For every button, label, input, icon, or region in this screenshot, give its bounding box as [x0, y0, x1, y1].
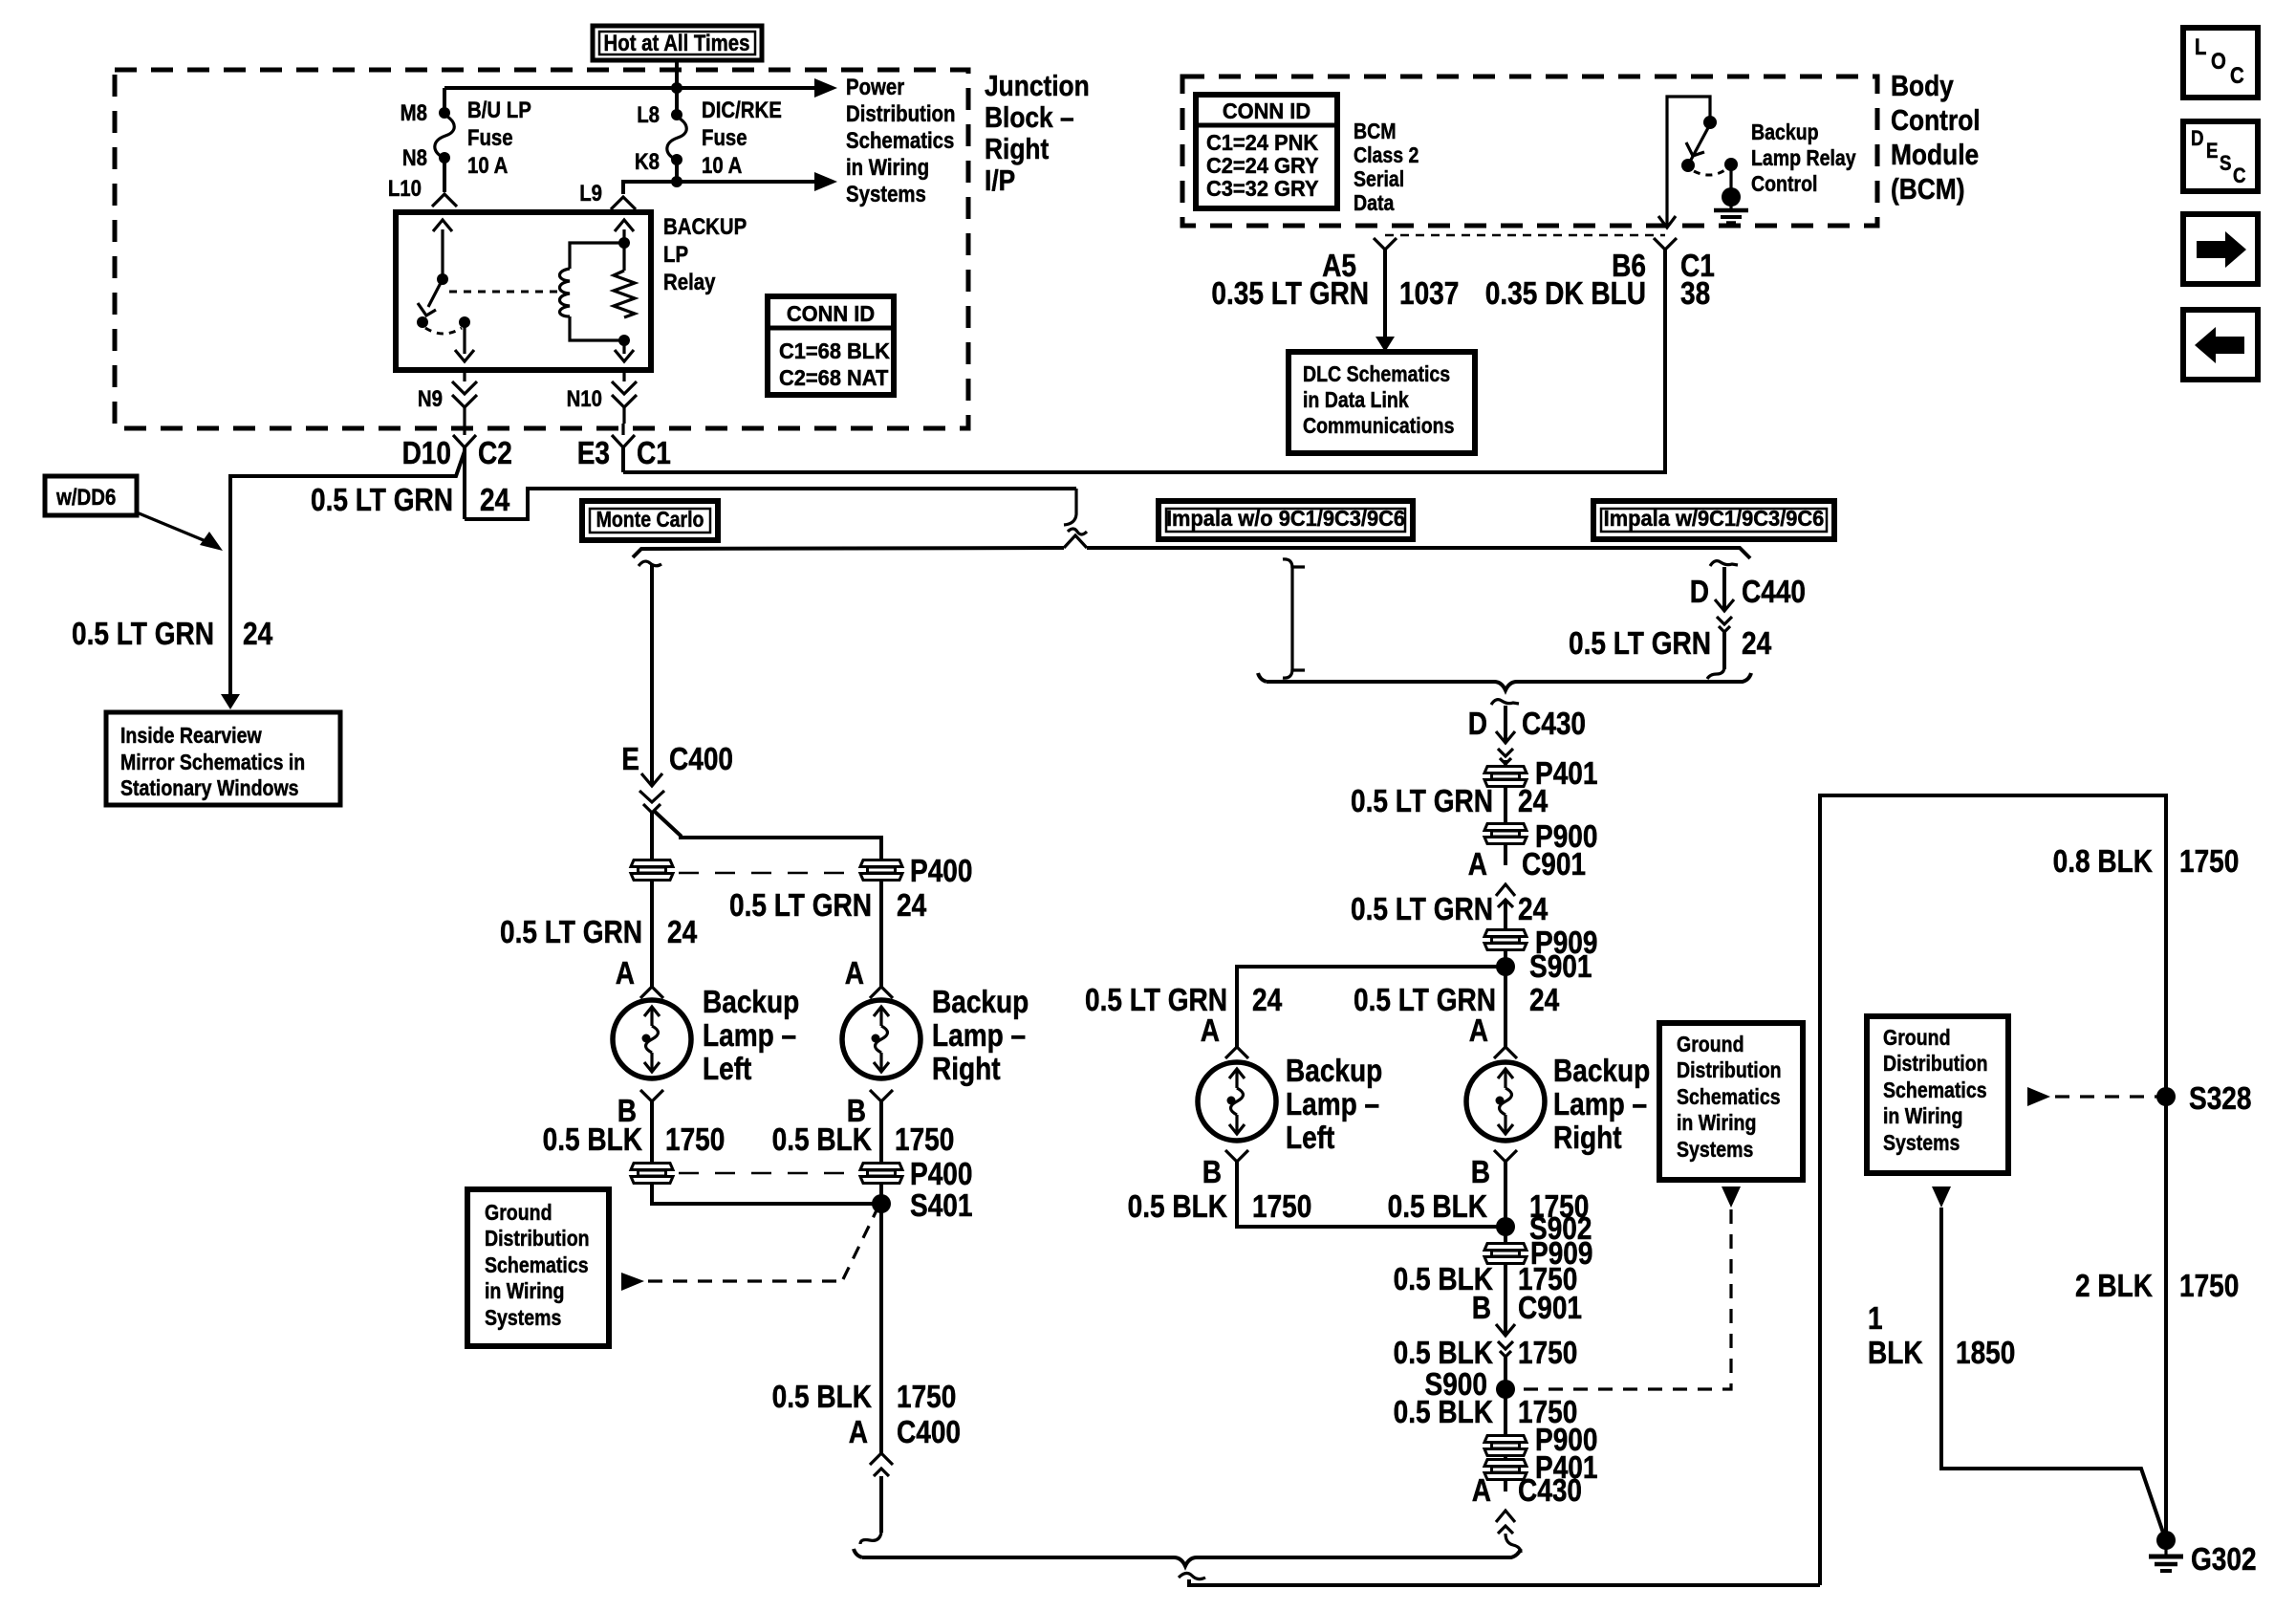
wire: S401 down to C400: [879, 1204, 883, 1453]
relay coil (inductor): [560, 269, 571, 316]
svg-text:Hot at All Times: Hot at All Times: [604, 30, 750, 55]
splice S401: [872, 1194, 891, 1213]
svg-text:Communications: Communications: [1303, 414, 1454, 439]
pin B Impala right: [1494, 1150, 1517, 1162]
svg-text:24: 24: [1518, 892, 1548, 927]
pin B right lamp: [870, 1090, 893, 1101]
svg-text:E3: E3: [577, 436, 610, 471]
svg-text:Left: Left: [1286, 1121, 1334, 1156]
svg-text:1750: 1750: [1252, 1189, 1311, 1225]
svg-text:D: D: [1690, 575, 1709, 610]
lamp Backup Lamp Right (Monte Carlo): [842, 1000, 921, 1078]
node L8: [671, 109, 682, 120]
svg-text:BCM: BCM: [1354, 120, 1396, 144]
svg-text:Backup: Backup: [1751, 120, 1819, 145]
underbrace gather bottom: [854, 1549, 1521, 1566]
wire: S901 down to right Impala lamp: [1504, 967, 1507, 1047]
grommet P400 right upper: [860, 860, 902, 881]
pin B Impala left: [1225, 1150, 1248, 1162]
navigation box arrow right: [2183, 214, 2258, 284]
svg-text:Systems: Systems: [485, 1306, 561, 1331]
flag box Ground Distribution (Impala): [1659, 1023, 1803, 1180]
flag box Impala w/o 9C1/9C3/9C6: [1159, 501, 1413, 539]
svg-text:in Wiring: in Wiring: [846, 154, 929, 180]
wire: left B to splice S401: [652, 1183, 873, 1204]
wire: hot feed drop: [675, 60, 679, 88]
node M8: [439, 107, 450, 119]
svg-text:C2=68 NAT: C2=68 NAT: [779, 365, 889, 390]
dashed reference arrow Impala to S900: [1722, 1186, 1741, 1208]
splice S901: [1504, 949, 1507, 967]
svg-text:in Wiring: in Wiring: [1883, 1104, 1962, 1129]
svg-text:A: A: [1201, 1013, 1220, 1049]
wire: left fuse feed elbow: [443, 88, 446, 114]
wire: Impala left B to S902: [1237, 1162, 1497, 1227]
svg-text:Fuse: Fuse: [467, 124, 513, 150]
svg-text:Schematics: Schematics: [846, 127, 954, 153]
connector D/C440: [1710, 561, 1738, 566]
svg-text:w/DD6: w/DD6: [55, 484, 116, 510]
svg-text:Schematics: Schematics: [1677, 1085, 1781, 1110]
wire: K8 down to branch node: [675, 160, 679, 182]
svg-text:C: C: [2230, 62, 2244, 88]
flag box Ground Distribution (right): [1867, 1016, 2008, 1173]
svg-text:C400: C400: [669, 742, 733, 777]
wire: ground loop rectangle: [1820, 795, 2166, 1585]
BCM connector face dashed line: [1385, 234, 1665, 236]
svg-text:Systems: Systems: [1677, 1138, 1753, 1163]
svg-text:Right: Right: [1553, 1121, 1622, 1156]
svg-text:B: B: [1472, 1291, 1491, 1326]
svg-text:10 A: 10 A: [702, 152, 742, 178]
svg-text:24: 24: [480, 483, 509, 518]
relay switch blade: [428, 279, 443, 307]
svg-text:Serial: Serial: [1354, 167, 1404, 192]
svg-text:Mirror Schematics in: Mirror Schematics in: [120, 751, 305, 775]
svg-text:0.5 LT GRN: 0.5 LT GRN: [311, 483, 453, 518]
svg-text:C2: C2: [478, 436, 512, 471]
wire: Monte Carlo drop: [650, 564, 654, 786]
break: below bottom cusp: [1179, 1573, 1205, 1578]
svg-text:0.5 LT GRN: 0.5 LT GRN: [1351, 892, 1493, 927]
break cusp on lower bus: [1064, 535, 1087, 548]
svg-text:Lamp –: Lamp –: [932, 1018, 1026, 1054]
svg-text:1: 1: [1868, 1301, 1883, 1337]
svg-text:S401: S401: [910, 1188, 972, 1224]
svg-text:C3=32 GRY: C3=32 GRY: [1206, 176, 1319, 201]
flag box w/DD6: [45, 476, 137, 515]
junction CONN ID table: [768, 296, 894, 395]
splice S900: [1496, 1380, 1515, 1399]
node: coil top: [618, 237, 630, 249]
svg-text:K8: K8: [635, 148, 660, 174]
svg-text:Impala w/o 9C1/9C3/9C6: Impala w/o 9C1/9C3/9C6: [1166, 506, 1405, 531]
option bracket Impala w/o branch: [1290, 566, 1293, 671]
svg-text:Lamp –: Lamp –: [1286, 1087, 1379, 1122]
relay pin arrow up (right): [622, 229, 625, 271]
dashed grommet link P400 upper: [679, 872, 855, 875]
grommet P900 lower: [1484, 1436, 1527, 1456]
svg-text:A: A: [1469, 1013, 1488, 1049]
svg-text:BLK: BLK: [1868, 1336, 1923, 1371]
svg-text:Lamp Relay: Lamp Relay: [1751, 146, 1856, 171]
svg-text:D10: D10: [402, 436, 451, 471]
svg-text:Backup: Backup: [932, 985, 1029, 1020]
break: Monte Carlo ground end: [860, 1533, 881, 1544]
svg-text:Distribution: Distribution: [846, 100, 955, 126]
svg-text:DLC Schematics: DLC Schematics: [1303, 362, 1450, 387]
svg-text:1750: 1750: [665, 1122, 725, 1158]
svg-text:I/P: I/P: [985, 164, 1015, 197]
wire: C400 to left lamp branch: [650, 813, 654, 861]
node: K8 branch: [671, 176, 682, 187]
BCM switch dashed travel arc: [1694, 169, 1726, 175]
node: coil bottom: [618, 335, 630, 346]
splice S902: [1496, 1217, 1515, 1236]
svg-text:LP: LP: [663, 241, 688, 267]
svg-text:Junction: Junction: [985, 70, 1090, 102]
svg-text:Module: Module: [1891, 139, 1979, 171]
svg-text:C400: C400: [897, 1415, 961, 1450]
svg-text:in Wiring: in Wiring: [1677, 1111, 1756, 1136]
svg-text:2 BLK: 2 BLK: [2075, 1269, 2153, 1304]
relay pin arrow up (left): [441, 229, 444, 279]
fuse DIC/RKE 10A: [667, 117, 686, 160]
grommet P909 upper: [1484, 930, 1527, 950]
flag box Hot at All Times: [593, 26, 762, 60]
svg-text:24: 24: [243, 617, 272, 652]
svg-text:B/U LP: B/U LP: [467, 97, 531, 122]
svg-text:Inside Rearview: Inside Rearview: [120, 724, 262, 749]
svg-text:(BCM): (BCM): [1891, 173, 1965, 206]
svg-text:Impala w/9C1/9C3/9C6: Impala w/9C1/9C3/9C6: [1604, 506, 1825, 531]
break: C430 lower to underbrace: [1505, 1534, 1521, 1553]
svg-text:B: B: [1202, 1155, 1222, 1190]
underbrace gather to C430: [1258, 673, 1751, 690]
svg-text:0.5 LT GRN: 0.5 LT GRN: [1351, 784, 1493, 819]
svg-text:1750: 1750: [2179, 1269, 2239, 1304]
BCM relay driver wire: [1667, 97, 1710, 224]
connector E3/C1: [621, 424, 624, 435]
svg-text:1750: 1750: [1518, 1336, 1577, 1371]
svg-text:CONN ID: CONN ID: [1223, 98, 1310, 123]
svg-text:0.5 LT GRN: 0.5 LT GRN: [1569, 626, 1711, 662]
BCM dashed outline: [1182, 76, 1877, 226]
pin B left lamp: [640, 1090, 663, 1101]
fuse B/U LP 10A: [435, 115, 454, 158]
wire: P909 to C901: [1504, 1263, 1507, 1336]
svg-text:Distribution: Distribution: [1677, 1058, 1782, 1083]
svg-text:Block –: Block –: [985, 101, 1074, 134]
svg-text:24: 24: [897, 888, 926, 924]
wire: C440 down: [1722, 632, 1726, 669]
grommet P400 left upper: [631, 860, 673, 881]
svg-text:D: D: [2191, 128, 2204, 151]
connector N10 double chevron: [622, 370, 625, 381]
svg-text:N8: N8: [402, 144, 427, 170]
svg-text:Distribution: Distribution: [485, 1227, 590, 1252]
svg-text:38: 38: [1680, 276, 1710, 312]
svg-text:Backup: Backup: [703, 985, 799, 1020]
wire: left P400 to lamp: [650, 880, 654, 987]
wire: D10 branch to w/DD6 net: [230, 451, 465, 698]
break: upper bus end: [1064, 489, 1076, 525]
wire: bottom bus to right loop: [1189, 1579, 1820, 1585]
svg-text:Right: Right: [932, 1052, 1001, 1087]
arrow from w/DD6 to wire: [137, 512, 210, 543]
wire: right B to splice S401: [879, 1183, 883, 1204]
svg-text:G302: G302: [2191, 1542, 2257, 1578]
svg-text:Ground: Ground: [1883, 1026, 1951, 1051]
svg-text:Control: Control: [1751, 172, 1817, 197]
wire: hot bus to Power Distribution arrow: [444, 86, 818, 90]
navigation box LOC: [2183, 28, 2258, 98]
break: Monte Carlo drop: [639, 561, 661, 566]
svg-text:in Wiring: in Wiring: [485, 1279, 564, 1304]
BCM switch blade: [1690, 124, 1710, 162]
svg-text:24: 24: [1529, 983, 1559, 1018]
connector L9 chevron: [611, 197, 636, 209]
svg-text:Schematics: Schematics: [485, 1253, 589, 1278]
svg-text:0.5 BLK: 0.5 BLK: [543, 1122, 642, 1158]
svg-text:Data: Data: [1354, 191, 1394, 216]
svg-text:Left: Left: [703, 1052, 751, 1087]
relay switch contact right: [459, 316, 470, 328]
node N8: [439, 152, 450, 163]
wire: S901 to left Impala lamp: [1237, 967, 1505, 1047]
wire: C901 to S900: [1504, 1357, 1507, 1389]
svg-text:N10: N10: [567, 385, 602, 411]
svg-text:Control: Control: [1891, 104, 1981, 137]
svg-text:0.5 BLK: 0.5 BLK: [772, 1380, 872, 1415]
svg-text:L: L: [2195, 33, 2206, 59]
svg-text:L9: L9: [579, 180, 602, 206]
wire: 1 BLK 1850 to G302: [1941, 1208, 2163, 1533]
svg-text:C901: C901: [1522, 847, 1586, 882]
lamp Backup Lamp Left (Impala): [1198, 1062, 1276, 1141]
junction block dashed outline: [115, 70, 968, 428]
grommet P401: [1484, 767, 1527, 787]
wire: D10 jog to Monte Carlo bus: [465, 489, 1076, 519]
svg-text:C901: C901: [1518, 1291, 1582, 1326]
svg-text:Body: Body: [1891, 70, 1954, 102]
svg-text:0.35 DK BLU: 0.35 DK BLU: [1485, 276, 1646, 312]
wire: A5 to DLC with arrow: [1383, 250, 1387, 340]
svg-text:Systems: Systems: [846, 181, 926, 207]
svg-text:24: 24: [1518, 784, 1548, 819]
svg-text:0.5 BLK: 0.5 BLK: [1394, 1336, 1493, 1371]
svg-text:0.35 LT GRN: 0.35 LT GRN: [1211, 276, 1369, 312]
connector D10/C2: [463, 424, 466, 435]
wire: left lamp B down: [650, 1101, 654, 1164]
svg-text:C1: C1: [637, 436, 671, 471]
svg-text:E: E: [621, 742, 639, 777]
flag box Inside Rearview Mirror Schematics in Stationary Windows: [106, 712, 340, 805]
relay coil loop: [570, 243, 624, 269]
navigation box DESC: [2183, 121, 2258, 191]
wire: right P400 to lamp: [879, 880, 883, 987]
svg-text:Distribution: Distribution: [1883, 1052, 1988, 1077]
wire: branch to in-Wiring arrow: [677, 180, 818, 184]
svg-text:Relay: Relay: [663, 269, 716, 294]
svg-text:Stationary Windows: Stationary Windows: [120, 776, 299, 801]
wire: right fuse feed: [675, 88, 679, 115]
grommet P400 right lower: [860, 1164, 902, 1184]
flag box Ground Distribution (Monte Carlo): [467, 1189, 609, 1346]
flag box Impala w/9C1/9C3/9C6: [1593, 501, 1834, 539]
svg-text:Schematics: Schematics: [1883, 1078, 1987, 1103]
svg-text:1850: 1850: [1956, 1336, 2015, 1371]
splice S328: [2156, 1087, 2176, 1106]
svg-text:S328: S328: [2189, 1081, 2251, 1117]
wire: branch left to L9: [623, 182, 677, 194]
svg-text:0.5 BLK: 0.5 BLK: [1394, 1395, 1493, 1430]
relay switch contact left: [417, 316, 428, 328]
wire: C430 to P401: [1504, 760, 1507, 765]
BCM switch contact right: [1724, 158, 1738, 171]
svg-text:CONN ID: CONN ID: [787, 301, 875, 326]
svg-text:S: S: [2220, 153, 2231, 176]
svg-text:0.5 LT GRN: 0.5 LT GRN: [72, 617, 214, 652]
connector B6: [1654, 238, 1677, 250]
wire: N8 to L10: [443, 158, 446, 192]
wire: relay output to N9 with down arrow: [463, 322, 466, 354]
BCM switch contact left: [1681, 159, 1695, 172]
connector L10 chevron: [432, 194, 457, 207]
svg-text:L8: L8: [637, 101, 660, 127]
lamp Backup Lamp Left (Monte Carlo): [613, 1000, 691, 1078]
grommet P900: [1484, 824, 1527, 844]
svg-text:S901: S901: [1529, 949, 1592, 985]
svg-text:B: B: [1471, 1155, 1490, 1190]
dashed reference arrow right box down (1 BLK wire): [1932, 1186, 1951, 1208]
svg-text:C2=24 GRY: C2=24 GRY: [1206, 153, 1319, 178]
svg-text:0.8 BLK: 0.8 BLK: [2053, 844, 2153, 880]
lower bus with break hooks: [633, 548, 1750, 558]
svg-text:E: E: [2206, 141, 2218, 163]
wire: S900 to P900: [1504, 1389, 1507, 1435]
svg-text:DIC/RKE: DIC/RKE: [702, 97, 782, 122]
svg-text:L10: L10: [388, 175, 422, 201]
svg-text:Class 2: Class 2: [1354, 143, 1419, 168]
svg-text:M8: M8: [401, 99, 427, 125]
svg-text:0.5 BLK: 0.5 BLK: [1388, 1189, 1487, 1225]
wire: right lamp B down: [879, 1101, 883, 1164]
relay dashed actuation link: [449, 291, 560, 294]
relay resistor: [614, 271, 635, 317]
svg-text:Right: Right: [985, 133, 1050, 165]
svg-text:P400: P400: [910, 854, 972, 889]
svg-text:Backup: Backup: [1553, 1054, 1650, 1089]
svg-text:C430: C430: [1518, 1473, 1582, 1509]
relay switch dashed travel arc: [425, 328, 462, 334]
connector A5: [1374, 238, 1397, 250]
svg-text:1750: 1750: [2179, 844, 2239, 880]
ground G302: [2156, 1531, 2176, 1550]
svg-text:0.5 LT GRN: 0.5 LT GRN: [500, 915, 642, 950]
svg-text:C1=24 PNK: C1=24 PNK: [1206, 130, 1318, 155]
svg-text:A: A: [845, 956, 864, 991]
svg-text:D: D: [1468, 707, 1487, 742]
connector D/C430: [1491, 700, 1519, 705]
flag box DLC Schematics in Data Link Communications: [1289, 352, 1475, 453]
svg-text:A: A: [1472, 1473, 1491, 1509]
svg-text:Power: Power: [846, 74, 905, 99]
svg-text:Backup: Backup: [1286, 1054, 1382, 1089]
svg-text:Ground: Ground: [1677, 1033, 1744, 1057]
svg-text:0.5 BLK: 0.5 BLK: [772, 1122, 872, 1158]
BCM internal ground: [1729, 164, 1732, 189]
svg-text:Monte Carlo: Monte Carlo: [596, 508, 704, 533]
dashed grommet link P400 lower: [679, 1172, 855, 1175]
svg-text:BACKUP: BACKUP: [663, 213, 747, 239]
svg-text:A: A: [1468, 847, 1487, 882]
grommet P909 lower: [1504, 1227, 1507, 1243]
wire: P401 to P900: [1504, 786, 1507, 822]
svg-text:O: O: [2211, 48, 2226, 74]
grommet P401 lower: [1504, 1455, 1507, 1460]
svg-text:Lamp –: Lamp –: [1553, 1087, 1647, 1122]
svg-text:0.5 LT GRN: 0.5 LT GRN: [729, 888, 872, 924]
svg-text:0.5 BLK: 0.5 BLK: [1128, 1189, 1227, 1225]
svg-text:A: A: [849, 1415, 868, 1450]
svg-text:C440: C440: [1742, 575, 1806, 610]
dashed reference arrow right to S328: [2027, 1087, 2050, 1106]
grommet P400 left lower: [631, 1164, 673, 1184]
wire: E3 bus to BCM B6: [623, 249, 1665, 472]
svg-text:A: A: [616, 956, 635, 991]
wire: C400 to bottom break: [879, 1476, 883, 1533]
relay box BACKUP LP Relay: [396, 212, 651, 370]
break: C440 wire end: [1707, 666, 1724, 679]
node: hot bus junction: [671, 82, 682, 94]
svg-text:Systems: Systems: [1883, 1131, 1960, 1156]
navigation box arrow left: [2183, 310, 2258, 380]
svg-text:P400: P400: [910, 1157, 972, 1192]
svg-text:N9: N9: [418, 385, 443, 411]
svg-text:24: 24: [1742, 626, 1771, 662]
svg-text:C1=68 BLK: C1=68 BLK: [779, 338, 890, 363]
relay switch pivot: [437, 273, 448, 285]
connector N9 double chevron: [463, 370, 466, 381]
svg-text:C430: C430: [1522, 707, 1586, 742]
svg-text:Fuse: Fuse: [702, 124, 747, 150]
svg-text:24: 24: [1252, 983, 1282, 1018]
flag box Monte Carlo: [582, 501, 718, 540]
BCM CONN ID table: [1196, 95, 1337, 208]
svg-text:24: 24: [667, 915, 697, 950]
svg-text:Lamp –: Lamp –: [703, 1018, 796, 1054]
svg-text:10 A: 10 A: [467, 152, 508, 178]
svg-text:1750: 1750: [895, 1122, 954, 1158]
svg-text:Ground: Ground: [485, 1201, 552, 1226]
svg-text:1037: 1037: [1399, 276, 1459, 312]
lamp Backup Lamp Right (Impala): [1466, 1062, 1545, 1141]
BCM switch pivot: [1703, 116, 1717, 129]
wire: jog to right lamp branch: [654, 811, 881, 861]
dashed reference arrow to S401: [621, 1273, 644, 1291]
wire: coil bottom to N10 with down arrow: [622, 340, 625, 354]
svg-text:in Data Link: in Data Link: [1303, 388, 1409, 413]
wire: Impala right B to S902: [1504, 1162, 1507, 1227]
node K8: [671, 154, 682, 165]
svg-text:1750: 1750: [897, 1380, 956, 1415]
svg-text:C: C: [2233, 165, 2246, 188]
